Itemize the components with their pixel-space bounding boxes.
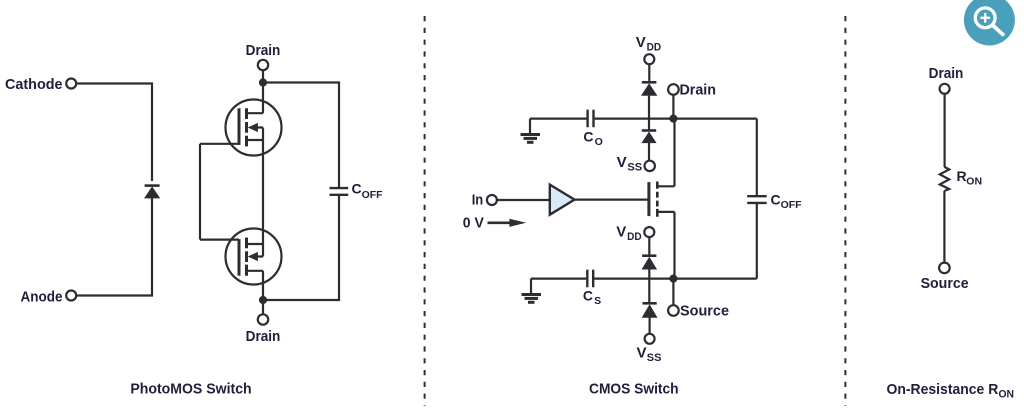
title On-Resistance RON bbox=[887, 381, 1015, 401]
wire bottom rail left bbox=[531, 278, 586, 280]
transistor Q1 (top MOSFET) bbox=[200, 100, 282, 156]
wire M1 source lead bbox=[673, 212, 675, 279]
svg-text:R: R bbox=[957, 168, 967, 184]
wire resistor to source bbox=[943, 191, 945, 263]
svg-text:C: C bbox=[352, 181, 362, 197]
wire D2 to VSS bbox=[648, 142, 650, 161]
svg-text:Drain: Drain bbox=[929, 65, 964, 82]
terminal VDD top bbox=[644, 54, 654, 64]
wire bottom rail right bbox=[594, 278, 757, 280]
wire D1 to D2 bbox=[648, 96, 650, 130]
node dot top bbox=[259, 78, 267, 86]
wire right rail bottom bbox=[263, 195, 339, 300]
svg-text:C: C bbox=[583, 128, 593, 144]
svg-text:SS: SS bbox=[627, 162, 642, 174]
svg-text:ON: ON bbox=[966, 175, 982, 187]
terminal VDD lower bbox=[644, 227, 654, 237]
label CO bbox=[583, 128, 602, 148]
wire gate rail bbox=[199, 144, 201, 240]
node dot drain bbox=[669, 115, 677, 123]
svg-text:Anode: Anode bbox=[21, 288, 63, 305]
wire right rail top bbox=[263, 83, 339, 189]
terminal Cathode bbox=[66, 79, 76, 89]
terminal In bbox=[487, 195, 497, 205]
svg-text:V: V bbox=[616, 223, 626, 240]
label VSS upper bbox=[617, 154, 643, 174]
diode D2 bbox=[641, 131, 656, 144]
ground top bbox=[521, 119, 541, 143]
wire drain bottom lead bbox=[262, 271, 264, 315]
svg-text:Cathode: Cathode bbox=[5, 76, 63, 93]
capacitor COFF CMOS bbox=[747, 196, 767, 203]
resistor RON bbox=[940, 167, 949, 191]
wire buffer to gate bbox=[575, 199, 648, 201]
node dot bottom bbox=[259, 296, 267, 304]
svg-text:V: V bbox=[636, 34, 646, 51]
arrow 0V bbox=[488, 219, 527, 227]
terminal Anode bbox=[66, 291, 76, 301]
wire cathode to LED top bbox=[76, 84, 152, 182]
wire top rail left bbox=[530, 117, 587, 119]
wire common source between Q1 and Q2 bbox=[262, 140, 264, 244]
wire vdd lower to D3 bbox=[648, 237, 650, 255]
ground bottom bbox=[522, 279, 542, 303]
svg-text:In: In bbox=[472, 191, 484, 208]
separator right dashed bbox=[844, 16, 846, 406]
transistor M1 (CMOS MOSFET) bbox=[649, 182, 675, 217]
wire top rail right bbox=[595, 117, 757, 119]
svg-text:OFF: OFF bbox=[781, 199, 803, 211]
svg-text:Drain: Drain bbox=[246, 42, 281, 59]
wire drain terminal lead bbox=[672, 95, 674, 119]
svg-text:DD: DD bbox=[627, 231, 642, 243]
wire drain to resistor bbox=[943, 94, 945, 167]
capacitor CS bbox=[587, 270, 593, 288]
terminal VSS upper bbox=[645, 161, 655, 171]
label COFF PhotoMOS bbox=[352, 181, 384, 201]
svg-text:V: V bbox=[617, 154, 627, 171]
terminal Source CMOS bbox=[668, 305, 679, 316]
svg-text:C: C bbox=[771, 191, 781, 207]
diode D4 bbox=[642, 303, 658, 317]
terminal Drain bottom bbox=[258, 314, 268, 324]
svg-text:0 V: 0 V bbox=[463, 214, 484, 231]
transistor Q2 (bottom MOSFET) bbox=[200, 229, 282, 285]
svg-text:S: S bbox=[594, 295, 601, 307]
svg-text:OFF: OFF bbox=[362, 189, 384, 201]
wire M1 drain lead bbox=[673, 119, 675, 187]
svg-text:ON: ON bbox=[999, 388, 1015, 400]
svg-text:PhotoMOS Switch: PhotoMOS Switch bbox=[130, 381, 251, 398]
svg-text:C: C bbox=[583, 287, 593, 303]
wire source terminal lead bbox=[672, 279, 674, 306]
icon magnifier bbox=[964, 0, 1015, 46]
svg-text:Drain: Drain bbox=[246, 328, 281, 345]
wire right rail COFF bbox=[756, 119, 758, 279]
diode D3 bbox=[642, 256, 658, 270]
terminal Drain top bbox=[258, 60, 268, 70]
svg-text:V: V bbox=[637, 344, 647, 361]
svg-text:DD: DD bbox=[647, 42, 662, 54]
svg-text:Source: Source bbox=[680, 303, 729, 320]
wire vdd to D1 bbox=[648, 64, 650, 82]
svg-text:O: O bbox=[595, 136, 603, 148]
terminal Drain CMOS bbox=[668, 84, 679, 95]
terminal Drain right bbox=[940, 84, 950, 94]
terminal Source right bbox=[939, 263, 950, 274]
wire LED bottom to anode bbox=[76, 197, 152, 296]
label COFF CMOS bbox=[771, 191, 803, 211]
svg-text:Source: Source bbox=[921, 275, 969, 292]
diode D1 bbox=[641, 82, 657, 96]
capacitor CO bbox=[588, 110, 594, 128]
label VDD top bbox=[636, 34, 661, 54]
node dot source bbox=[669, 275, 677, 283]
terminal VSS bottom bbox=[645, 334, 655, 344]
buffer U1 bbox=[550, 185, 575, 215]
wire D4 to VSS bottom bbox=[648, 318, 650, 334]
svg-text:SS: SS bbox=[647, 352, 662, 364]
svg-text:Drain: Drain bbox=[680, 82, 717, 99]
label RON bbox=[957, 168, 983, 188]
label VDD lower bbox=[616, 223, 641, 243]
label CS bbox=[583, 287, 601, 307]
wire In to buffer bbox=[497, 199, 550, 201]
capacitor COFF PhotoMOS bbox=[330, 188, 349, 195]
label VSS bottom bbox=[637, 344, 662, 364]
diode LED (input) bbox=[144, 186, 160, 199]
separator left dashed bbox=[424, 16, 426, 406]
wire drain top lead bbox=[262, 70, 264, 113]
wire D3 to D4 bbox=[648, 269, 650, 303]
svg-text:CMOS Switch: CMOS Switch bbox=[589, 381, 679, 398]
svg-text:On-Resistance R: On-Resistance R bbox=[887, 381, 999, 398]
